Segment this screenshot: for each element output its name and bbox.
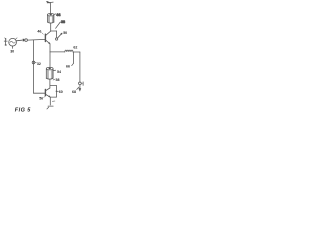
arrowhead down (79, 88, 81, 91)
wire L1 to right branch (73, 51, 80, 53)
side dash near ground (52, 100, 55, 102)
svg-text:62: 62 (73, 46, 77, 50)
switch S1 arm (57, 33, 62, 38)
svg-text:60: 60 (59, 90, 63, 94)
label 38 (56, 20, 65, 29)
label 46 (37, 29, 43, 34)
svg-text:32: 32 (37, 62, 41, 66)
wire source to Q1 base (16, 39, 22, 42)
tap stub with leader (66, 52, 74, 68)
label 58 (53, 78, 59, 82)
svg-text:50: 50 (63, 31, 67, 35)
svg-text:46: 46 (37, 29, 41, 33)
svg-text:44: 44 (56, 13, 60, 17)
inductor L1 (65, 50, 73, 52)
wire emitter to ground (49, 97, 51, 105)
svg-text:56: 56 (39, 96, 43, 100)
resistor R2 (cylinder) (46, 67, 53, 79)
label 30 under source (10, 46, 14, 53)
parallel element loop around Q2 (50, 86, 63, 98)
input terminal left (4, 38, 7, 46)
ground (47, 106, 53, 109)
wire node to switch (51, 30, 57, 32)
wire top terminal to resistor R1 (50, 3, 52, 14)
switch S1 pivot (55, 38, 57, 40)
resistor R1 (cylinder) (48, 14, 54, 24)
label 44 (54, 13, 60, 17)
transistor Q2 (34, 79, 51, 97)
svg-text:68: 68 (72, 90, 76, 94)
wire right branch down (79, 52, 81, 89)
power terminal top (47, 2, 53, 3)
label 54 (53, 70, 61, 74)
wire Q1 emitter down and right (49, 44, 51, 52)
svg-text:38: 38 (61, 20, 65, 24)
label 56 (44, 96, 46, 97)
svg-text:54: 54 (57, 70, 61, 74)
output terminal T1 (79, 82, 84, 86)
element on left wire (32, 61, 41, 66)
wire emitter junction down to R2 (49, 52, 51, 68)
leader and label 68 (72, 87, 79, 94)
AC source G1 (9, 38, 17, 46)
coupling element on input wire (23, 39, 28, 42)
svg-text:58: 58 (56, 78, 60, 82)
svg-text:30: 30 (10, 49, 14, 53)
node A left branch wire (33, 40, 35, 93)
svg-text:FIG 5: FIG 5 (15, 108, 31, 114)
svg-text:66: 66 (66, 64, 70, 68)
transistor Q1 (45, 31, 50, 44)
wire R1 bottom to node (50, 23, 52, 31)
